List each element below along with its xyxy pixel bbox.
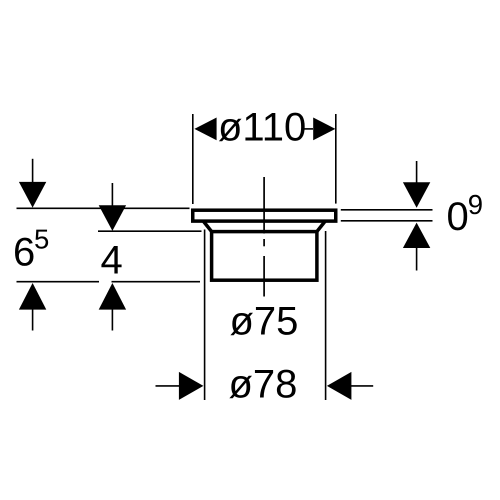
arrow shaft 6_5 upper xyxy=(32,159,34,184)
centerline segment 1 xyxy=(263,177,265,234)
svg-text:4: 4 xyxy=(101,238,123,282)
arrowhead 6_5 lower up xyxy=(19,283,46,310)
svg-text:9: 9 xyxy=(468,189,483,220)
arrowhead ø110 right xyxy=(313,118,335,141)
arrowhead 6_5 upper down xyxy=(19,182,46,208)
svg-text:ø78: ø78 xyxy=(229,362,298,406)
arrowhead ø78 right pointing left xyxy=(327,372,352,400)
svg-text:6: 6 xyxy=(13,231,35,275)
extension line left of dimension ø110 xyxy=(192,114,194,204)
svg-text:5: 5 xyxy=(34,224,49,255)
arrow shaft 4 upper xyxy=(111,183,113,207)
arrowhead 0_9 lower up xyxy=(403,223,430,248)
left chamfer under plate xyxy=(204,222,212,232)
reference line top for dimension 6_5 xyxy=(17,207,190,209)
svg-text:0: 0 xyxy=(447,195,469,239)
reference line bottom shared by 6_5 and 4, right part xyxy=(112,281,201,283)
arrow shaft 4 lower xyxy=(111,309,113,331)
arrowhead 4 lower up xyxy=(99,283,126,310)
right chamfer under plate xyxy=(317,222,325,232)
centerline segment 3 xyxy=(263,256,265,297)
reference line bottom shared by 6_5 and 4, left part xyxy=(17,281,100,283)
arrow shaft 0_9 upper xyxy=(416,161,418,184)
dimension line right segment ø78 xyxy=(350,385,373,387)
extension line left of dimension ø78 xyxy=(204,230,206,401)
reference line top for dimension 0_9 xyxy=(341,209,433,211)
arrowhead ø78 left pointing right xyxy=(179,372,204,400)
arrow shaft 6_5 lower xyxy=(32,309,34,331)
body tube outline xyxy=(212,232,317,281)
svg-text:ø75: ø75 xyxy=(230,300,299,344)
arrowhead 4 upper down xyxy=(99,205,126,231)
flange top plate outline xyxy=(193,210,336,221)
extension line right of dimension ø110 xyxy=(335,114,337,204)
dimension line left segment ø78 xyxy=(156,385,181,387)
dimension line segment ø110 xyxy=(305,128,314,130)
arrowhead 0_9 upper down xyxy=(403,182,430,207)
reference line top for dimension 4 xyxy=(98,230,202,232)
centerline segment 2 xyxy=(263,239,265,246)
reference line bottom for dimension 0_9 xyxy=(341,220,433,222)
extension line right of dimension ø78 xyxy=(325,231,327,400)
arrowhead ø110 left xyxy=(194,118,216,141)
svg-text:ø110: ø110 xyxy=(218,105,306,149)
arrow shaft 0_9 lower xyxy=(416,248,418,271)
